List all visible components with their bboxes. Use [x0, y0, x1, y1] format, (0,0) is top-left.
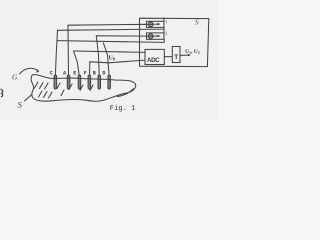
electrode pin E	[78, 75, 81, 89]
current source I2 box	[147, 33, 164, 39]
wire riser F	[89, 62, 91, 76]
processor box T	[172, 47, 180, 63]
wire riser C	[55, 30, 57, 75]
wire L6 electrode F to ADC lower	[90, 60, 145, 63]
electrode pin F	[88, 75, 91, 89]
arrow G pointer	[20, 68, 39, 74]
wire ADC to T	[164, 56, 172, 58]
wire riser D	[103, 43, 109, 76]
current source I1 circle	[148, 22, 153, 27]
electrode pin A	[67, 75, 70, 89]
arrow S pointer	[25, 94, 33, 101]
wire L5 electrode E to ADC upper	[74, 51, 146, 52]
wire L2 electrode C under I1 to I1 right	[58, 27, 165, 30]
margin scribble	[1, 89, 3, 97]
wire riser B	[96, 36, 99, 76]
current source I2 circle	[148, 34, 153, 39]
current source I2 arrow	[148, 35, 159, 37]
wire riser A	[67, 25, 70, 75]
electrode pin D	[108, 75, 111, 89]
wire L3 electrode B to I2 left	[96, 35, 148, 37]
wire riser E	[74, 51, 80, 75]
blob curl inner line	[118, 89, 134, 97]
wire L1 electrode A to I1 left	[68, 23, 148, 26]
output arrow U1,U2	[180, 54, 189, 56]
ADC box U3	[145, 49, 164, 64]
current source I1 arrow	[148, 23, 159, 25]
current source I1 box	[147, 21, 164, 27]
skin body blob outline	[31, 75, 136, 102]
wire L4 under I2 to I2 right	[57, 39, 164, 42]
electrode labels C A E F B D	[50, 70, 106, 76]
electrode pin C	[54, 75, 57, 89]
box S (signal processing unit)	[140, 18, 209, 66]
hatching strokes inside blob	[35, 82, 39, 88]
electrode pin B	[98, 75, 101, 89]
